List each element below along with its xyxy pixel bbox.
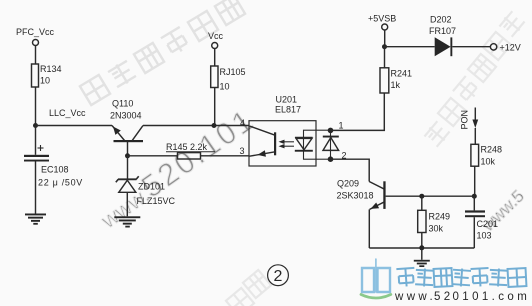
- ground below ZD101: [114, 216, 140, 227]
- svg-text:2: 2: [274, 268, 283, 285]
- svg-text:0101.com: 0101.com: [453, 291, 531, 303]
- svg-text:LLC_Vcc: LLC_Vcc: [49, 108, 86, 118]
- node R249 bottom: [419, 245, 424, 250]
- wire PFC_Vcc to R134: [35, 46, 37, 65]
- wire Q209 base to R248 node: [386, 195, 475, 197]
- wire Vcc to RJ105: [214, 49, 216, 67]
- svg-text:10k: 10k: [481, 157, 496, 167]
- wire Q110 collector to U201 pin4: [143, 125, 249, 127]
- svg-text:U201: U201: [276, 95, 298, 105]
- watermark: central www.520.101: [91, 102, 261, 236]
- node U201 pin2: [328, 151, 347, 163]
- node U201 pin1: [328, 121, 344, 134]
- svg-text:R248: R248: [481, 145, 503, 155]
- optocoupler U201: [240, 95, 331, 167]
- diode D202: [429, 15, 456, 57]
- svg-text:2SK3018: 2SK3018: [337, 191, 374, 201]
- diode across U201 pins 1-2: [323, 136, 339, 151]
- resistor R249: [418, 196, 450, 248]
- svg-text:EL817: EL817: [275, 105, 301, 115]
- marker circled 2: [268, 265, 289, 286]
- wire node to R145: [128, 155, 178, 157]
- svg-text:4: 4: [240, 118, 245, 128]
- svg-text:103: 103: [477, 231, 492, 241]
- wire node down to ZD101: [127, 156, 129, 180]
- resistor R145: [166, 142, 215, 159]
- transistor Q209: [337, 179, 386, 210]
- wire LLC_Vcc to Q110 emitter: [36, 125, 113, 127]
- svg-text:+5VSB: +5VSB: [368, 14, 396, 24]
- wire R248 to base line: [474, 166, 476, 196]
- resistor R241: [380, 68, 412, 93]
- watermark: top-left CJK chain: [80, 0, 245, 105]
- node R249 top: [419, 194, 424, 199]
- wire R145 to U201 pin3: [201, 155, 250, 157]
- wire D202 to +12V: [452, 46, 490, 48]
- node +5VSB junction: [382, 44, 387, 49]
- svg-text:Q209: Q209: [337, 179, 359, 189]
- wire LLC_Vcc node down to EC108: [35, 126, 37, 155]
- terminal +5VSB: [368, 14, 396, 31]
- svg-text:D202: D202: [430, 15, 452, 25]
- svg-text:R134: R134: [40, 64, 62, 74]
- watermark: bottom-center fragment: [226, 270, 271, 306]
- capacitor C201: [465, 196, 498, 248]
- svg-text:Q110: Q110: [112, 99, 133, 109]
- signal PON: [460, 108, 479, 145]
- wire RJ105 to collector wire: [214, 88, 216, 126]
- svg-text:1: 1: [339, 121, 344, 131]
- wire emitter bottom rail: [369, 247, 474, 249]
- wire +5VSB down: [384, 30, 386, 47]
- svg-text:2N3004: 2N3004: [110, 111, 142, 121]
- node LLC_Vcc: [33, 108, 86, 128]
- svg-text:10: 10: [220, 82, 230, 92]
- logo text 家电维修资料网: [396, 268, 526, 287]
- svg-text:1k: 1k: [391, 80, 401, 90]
- zener ZD101: [116, 176, 176, 216]
- svg-text:3: 3: [240, 146, 245, 156]
- wire +5VSB node to R241: [384, 47, 386, 68]
- svg-text:Vcc: Vcc: [208, 31, 224, 41]
- svg-text:R145 2.2k: R145 2.2k: [166, 142, 208, 152]
- wire R134 to LLC_Vcc node: [35, 87, 37, 126]
- wire pin2 to Q209 collector: [331, 159, 370, 181]
- resistor R134: [32, 64, 62, 87]
- watermark: bottom-right www: [478, 186, 528, 235]
- terminal PFC_Vcc: [16, 27, 55, 46]
- svg-text:PON: PON: [460, 110, 470, 130]
- svg-text:R249: R249: [429, 212, 451, 222]
- svg-text:EC108: EC108: [41, 165, 69, 175]
- ground below R249: [414, 248, 430, 267]
- svg-text:RJ105: RJ105: [220, 67, 246, 77]
- watermark: right CJK chain: [423, 10, 526, 148]
- node Q110 base junction: [125, 153, 130, 158]
- svg-text:22 μ /50V: 22 μ /50V: [38, 178, 83, 188]
- svg-text:PFC_Vcc: PFC_Vcc: [16, 27, 55, 37]
- logo book icon: [361, 259, 391, 298]
- svg-text:30k: 30k: [429, 224, 444, 234]
- ground below EC108: [25, 214, 46, 225]
- svg-text:C201: C201: [477, 219, 499, 229]
- transistor Q110: [110, 99, 143, 156]
- node R248 junction: [472, 194, 477, 199]
- svg-text:FR107: FR107: [429, 26, 456, 36]
- resistor R248: [471, 144, 502, 166]
- svg-text:+12V: +12V: [500, 43, 521, 53]
- svg-text:FLZ15VC: FLZ15VC: [137, 196, 176, 206]
- svg-text:www.: www.: [394, 291, 436, 303]
- capacitor EC108: [24, 145, 83, 214]
- terminal Vcc: [208, 31, 224, 49]
- wire Q209 emitter down: [368, 209, 370, 248]
- node RJ105 junction: [212, 123, 217, 128]
- svg-text:52: 52: [434, 291, 454, 303]
- terminal +12V: [490, 43, 520, 53]
- svg-text:ZD101: ZD101: [138, 182, 165, 192]
- logo url www.520101.com: [394, 291, 530, 303]
- wire node to D202: [385, 46, 435, 48]
- wire pin1 to R241: [331, 93, 385, 130]
- resistor RJ105: [211, 66, 246, 92]
- svg-text:R241: R241: [391, 69, 413, 79]
- svg-text:10: 10: [40, 76, 50, 86]
